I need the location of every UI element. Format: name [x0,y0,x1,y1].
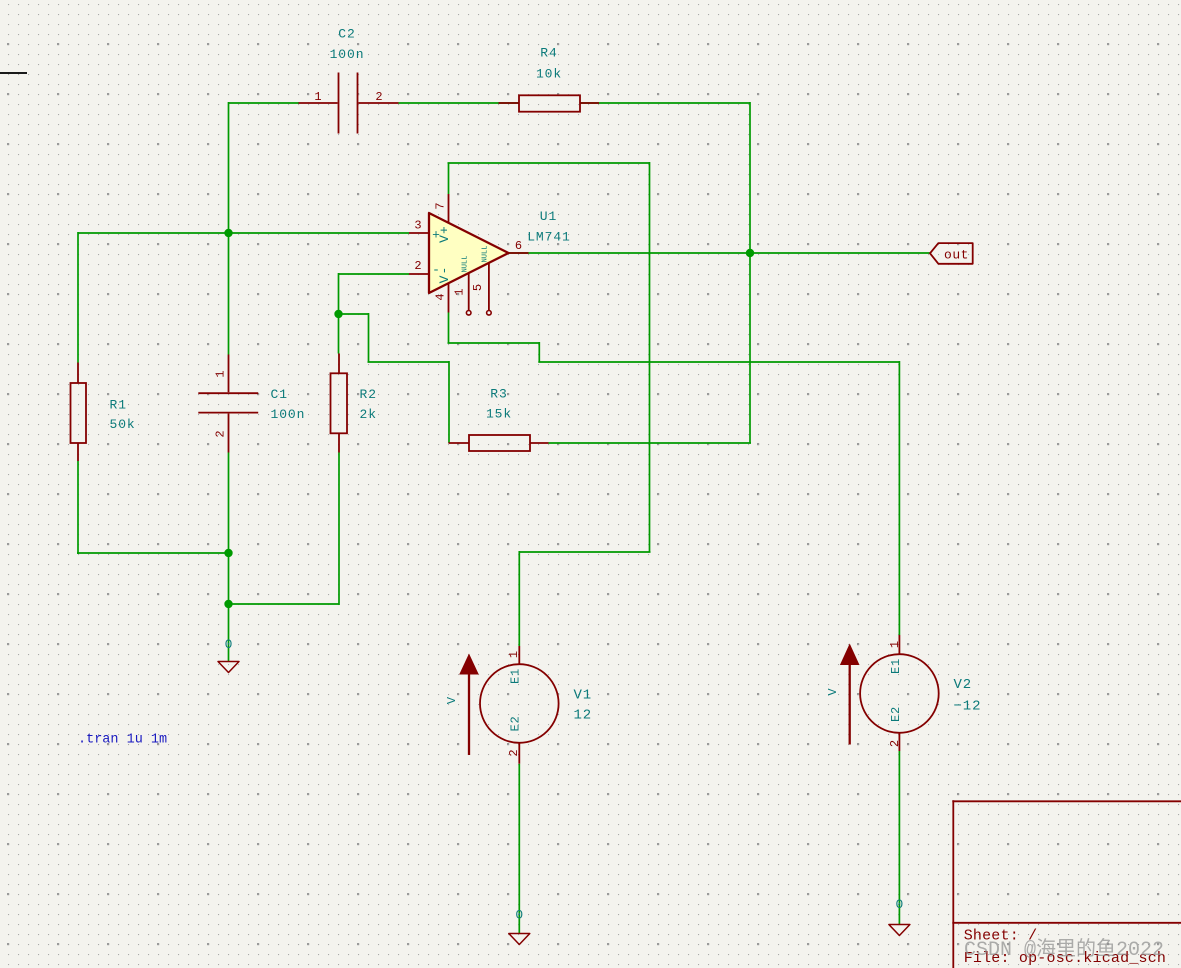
wire step vertical x=368.5 [368,313,370,362]
wire V1 pin 1 vertical [518,551,520,646]
wire V+ rail horizontal y=163 [448,162,650,164]
svg-text:R3: R3 [490,387,507,402]
junction R1/C1 bottom [224,549,232,557]
svg-text:10k: 10k [536,67,562,82]
wire junction to R3 step horizontal [339,313,369,315]
wire V+ rail vertical x=649.5 [649,162,651,552]
wire V2 pin 1 vertical [898,361,900,635]
svg-text:0: 0 [225,637,233,652]
svg-text:2: 2 [375,90,382,104]
ground 0 net (V2) [889,897,910,936]
ground 0 net (C1/R1/R2) [218,637,239,673]
svg-text:1: 1 [314,90,321,104]
junction ground net [224,600,232,608]
svg-text:5: 5 [471,284,485,291]
ground 0 net (V1) [509,908,530,945]
op-amp U1 [409,194,571,315]
wire inverting input horizontal y=274 [339,273,410,275]
wire R4 pin 2 to feedback corner [580,102,750,104]
svg-text:V-: V- [437,266,452,284]
svg-text:1: 1 [888,641,902,648]
wire R2 bottom vertical [338,453,340,606]
pin 5 offset null [488,263,490,311]
wire feedback vertical x=750 [749,102,751,443]
svg-text:C1: C1 [271,387,288,402]
svg-text:−12: −12 [954,699,982,715]
resistor R2 [331,354,377,453]
svg-text:100n: 100n [271,407,306,422]
pin 2 [409,273,429,275]
global label out [930,243,973,264]
pin 4 [448,284,450,313]
pin 7 [448,194,450,222]
capacitor C1 [198,355,305,453]
svg-text:50k: 50k [110,417,136,432]
wire V+ rail to V1 horizontal y=552 [519,551,650,553]
svg-text:7: 7 [434,202,448,209]
svg-text:V: V [445,696,459,704]
junction inverting input [334,310,342,318]
pin names [432,225,452,283]
wire V2 pin 2 to ground [898,751,900,924]
wire R3 pin 2 to feedback [549,442,752,444]
wire op-amp pin 7 up [448,163,450,194]
wire V- step horizontal y=343 [448,342,540,344]
page edge mark [0,72,27,74]
svg-text:2: 2 [214,430,228,437]
resistor R3 [449,387,549,452]
wire down to R3 pin 1 [448,361,450,443]
svg-text:6: 6 [515,239,522,253]
svg-text:NULL: NULL [482,246,490,263]
wire inverting vertical x=338.5 [338,273,340,354]
wire step horizontal y=362 to R3 [368,361,450,363]
svg-text:100n: 100n [330,47,365,62]
svg-text:R4: R4 [540,46,557,61]
resistor R4 [499,46,600,112]
wire op-amp output to out label [509,252,931,254]
junction at non-inverting input [224,229,232,237]
wire V- rail horizontal y=362 to V2 [538,361,899,363]
svg-text:15k: 15k [486,407,512,422]
wire V- step vertical x=539.3 [538,342,540,362]
wire C1 pin 2 down to ground [228,453,230,662]
wire left vertical x=228.5 [228,102,230,355]
svg-text:0: 0 [515,908,523,923]
svg-text:R1: R1 [110,398,127,413]
svg-text:4: 4 [434,293,448,300]
svg-text:CSDN @海里的鱼2022: CSDN @海里的鱼2022 [964,937,1164,962]
svg-text:0: 0 [895,897,903,912]
wire V1 pin 2 to ground [518,764,520,933]
wire non-inverting input y=233 [78,232,409,234]
voltage source V1 [445,646,592,764]
svg-text:U1: U1 [540,209,557,224]
svg-text:LM741: LM741 [527,230,571,245]
svg-text:3: 3 [414,219,421,233]
svg-text:E2: E2 [889,706,903,722]
V2 polarity arrow [849,665,851,745]
svg-text:.tran 1u 1m: .tran 1u 1m [78,733,167,748]
svg-text:E1: E1 [889,658,903,674]
wire R1 bottom vertical [77,461,79,554]
wire R1 top vertical [77,232,79,363]
svg-text:1: 1 [214,370,228,377]
svg-text:V: V [826,688,840,696]
svg-text:1: 1 [453,288,467,295]
wire op-amp pin 4 down [448,313,450,344]
wire y=604 to R2 [229,603,340,605]
svg-text:V+: V+ [437,225,452,243]
svg-text:12: 12 [574,708,593,724]
svg-text:2: 2 [507,749,521,756]
voltage source V2 [826,635,981,751]
svg-text:E2: E2 [509,715,523,731]
svg-text:C2: C2 [338,27,355,42]
pin numbers [414,202,522,300]
svg-text:R2: R2 [360,387,377,402]
wire y=553 R1 to C1 [77,552,229,554]
pin 3 [409,232,429,234]
svg-text:V1: V1 [574,688,593,704]
resistor R1 [71,363,136,462]
title block frame [952,800,1181,968]
svg-text:2k: 2k [360,407,377,422]
svg-text:E1: E1 [509,668,523,684]
pin 1 offset null [468,273,470,311]
V1 polarity arrow [468,675,470,756]
junction output node [746,249,754,257]
svg-text:out: out [944,248,969,263]
svg-text:1: 1 [507,651,521,658]
wire C2 pin 2 to R4 pin 1 [399,102,520,104]
svg-text:2: 2 [888,740,902,747]
capacitor C2 [299,27,399,134]
svg-text:V2: V2 [954,677,973,693]
pin 6 [509,252,529,254]
wire top-left to C2 pin 1 [229,102,300,104]
svg-text:NULL: NULL [462,256,470,273]
svg-text:2: 2 [414,259,421,273]
